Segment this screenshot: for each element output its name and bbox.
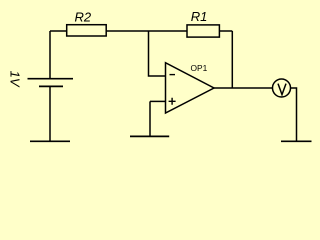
svg-text:R1: R1 bbox=[191, 9, 208, 24]
op-amp OP1 triangle bbox=[166, 63, 215, 113]
wire feedback node down to inverting input bbox=[149, 31, 166, 76]
wire battery bottom stem bbox=[49, 86, 51, 141]
wire non-inverting to ground stem bbox=[149, 101, 151, 136]
svg-text:R2: R2 bbox=[75, 10, 92, 25]
ground (battery) bbox=[30, 140, 70, 142]
op-amp plus sign bbox=[169, 98, 176, 105]
wire non-inverting input bbox=[150, 100, 166, 102]
battery V1 negative plate bbox=[39, 85, 63, 87]
resistor R1 bbox=[187, 25, 219, 37]
voltmeter V letter bbox=[278, 84, 286, 95]
wire voltmeter right bbox=[291, 88, 297, 141]
svg-text:OP1: OP1 bbox=[191, 63, 208, 73]
resistor R2 bbox=[67, 25, 107, 36]
wire op-amp output bbox=[214, 87, 273, 89]
op-amp minus sign bbox=[170, 74, 176, 76]
voltmeter V circle bbox=[273, 79, 291, 97]
ground (non-inverting input) bbox=[130, 135, 169, 137]
wire R1 right down to output node bbox=[231, 31, 233, 88]
wire top net: battery+ to R2, R1, output vertical bbox=[50, 30, 232, 32]
ground (voltmeter) bbox=[281, 140, 312, 142]
wire battery top stem bbox=[49, 31, 51, 78]
svg-text:1V: 1V bbox=[7, 71, 22, 88]
battery V1 positive plate bbox=[28, 78, 74, 80]
